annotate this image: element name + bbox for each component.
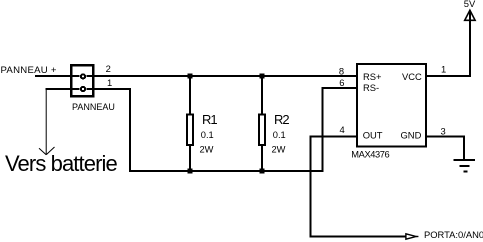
svg-text:0.1: 0.1 <box>273 130 286 140</box>
wire OUT horizontal from IC pin 4 <box>311 135 357 137</box>
resistor R2 top lead <box>261 76 263 115</box>
svg-text:1: 1 <box>107 77 112 88</box>
junction R1 top <box>188 74 193 79</box>
wire RS- horizontal to IC pin 6 <box>322 87 356 89</box>
svg-text:8: 8 <box>339 65 344 76</box>
svg-text:2: 2 <box>106 63 111 74</box>
wire ground vertical <box>463 135 465 160</box>
resistor R2 bottom lead <box>261 146 263 171</box>
svg-text:3: 3 <box>441 125 446 136</box>
wire vertical down from pin 1 corner <box>129 88 131 172</box>
wire connector pin 1 to right corner <box>87 88 131 90</box>
wire OUT bottom horizontal to port arrow <box>310 236 407 238</box>
svg-text:0.1: 0.1 <box>201 130 214 140</box>
svg-text:MAX4376: MAX4376 <box>351 150 389 160</box>
connector J1 body <box>71 65 93 96</box>
resistor R2 body <box>259 115 265 145</box>
svg-text:4: 4 <box>340 124 345 135</box>
svg-text:VCC: VCC <box>402 71 422 82</box>
svg-text:OUT: OUT <box>363 130 383 141</box>
connector pin 2 circle <box>81 74 85 78</box>
wire bottom rail (shunt low side) <box>130 170 323 172</box>
svg-text:PORTA:0/AN0: PORTA:0/AN0 <box>424 229 483 240</box>
port arrow PORTA:0/AN0 <box>406 234 419 239</box>
resistor R1 bottom lead <box>189 146 191 171</box>
wire top bus from connector pin 2 to IC pin 8 <box>87 75 357 77</box>
wire OUT vertical down <box>310 135 312 237</box>
svg-text:GND: GND <box>401 130 422 141</box>
wire GND pin 3 <box>427 135 465 137</box>
svg-text:PANNEAU: PANNEAU <box>72 102 115 112</box>
wire connector pin 1 left stub <box>46 88 80 90</box>
connector pin 1 circle <box>81 87 85 91</box>
wire top bus left segment into connector pin 2 <box>35 75 80 77</box>
power symbol 5V arrow <box>465 10 475 20</box>
svg-text:6: 6 <box>339 77 344 88</box>
wire RS- vertical down to bottom rail <box>321 87 323 172</box>
svg-text:R2: R2 <box>274 112 289 127</box>
junction R2 bottom <box>260 169 265 174</box>
svg-text:5V: 5V <box>464 0 476 9</box>
svg-text:RS-: RS- <box>363 82 379 93</box>
svg-text:2W: 2W <box>272 145 286 155</box>
ground symbol <box>454 160 475 171</box>
resistor R1 top lead <box>189 76 191 115</box>
junction R2 top <box>260 74 265 79</box>
svg-text:1: 1 <box>441 63 446 74</box>
annotation arrow to battery (thin) <box>39 90 55 155</box>
wire VCC pin 1 to 5V <box>427 75 471 77</box>
svg-text:2W: 2W <box>200 145 214 155</box>
svg-text:PANNEAU +: PANNEAU + <box>1 65 57 76</box>
svg-text:RS+: RS+ <box>363 71 382 82</box>
wire 5V vertical <box>469 12 471 77</box>
svg-text:R1: R1 <box>202 112 217 127</box>
resistor R1 body <box>187 115 193 145</box>
op-amp U1 MAX4376 body <box>357 64 426 147</box>
junction R1 bottom <box>188 169 193 174</box>
svg-text:Vers batterie: Vers batterie <box>5 151 117 176</box>
